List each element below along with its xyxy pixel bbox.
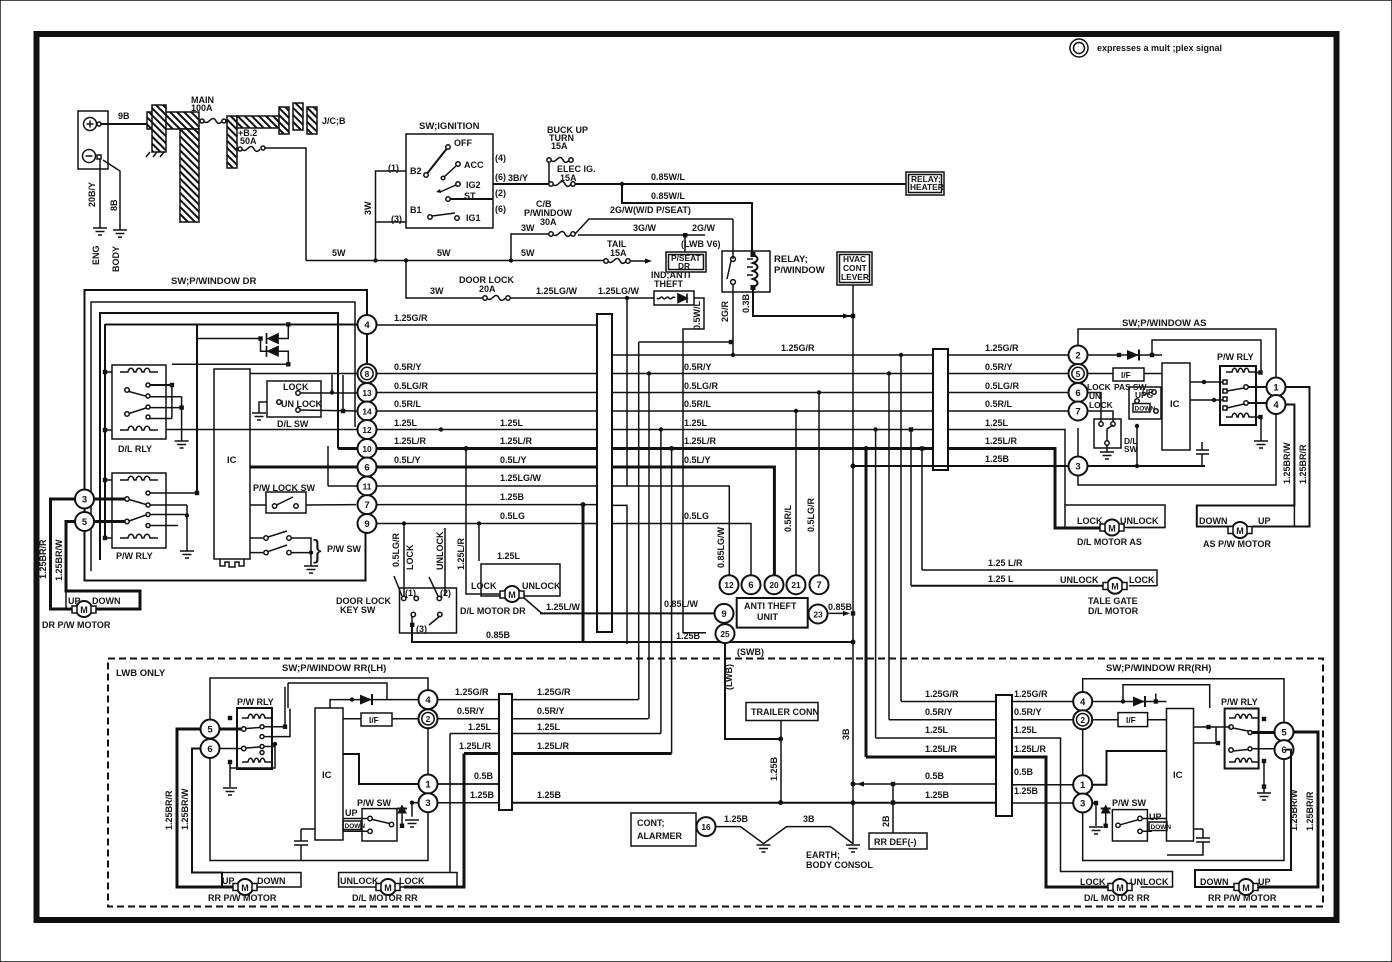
svg-text:1.25L/R: 1.25L/R (394, 436, 427, 446)
wire 1.25BR/R RR(RH) (1258, 732, 1318, 887)
svg-text:12: 12 (362, 425, 372, 435)
rows bus3 left side (437, 699, 499, 701)
IC RR(LH) (315, 708, 343, 840)
svg-text:21: 21 (791, 580, 801, 590)
svg-text:D/L MOTOR DR: D/L MOTOR DR (460, 606, 526, 616)
wire 0.5LG row (377, 523, 598, 525)
svg-text:0.5R/Y: 0.5R/Y (537, 706, 565, 716)
pin 7 (810, 575, 829, 594)
svg-text:UNIT: UNIT (757, 612, 778, 622)
bus bar B3 (499, 694, 512, 810)
svg-text:4: 4 (1080, 697, 1086, 708)
B1 / IG1 (428, 215, 432, 219)
D/L MOTOR AS (1065, 505, 1165, 528)
svg-text:2G/W(W/D P/SEAT): 2G/W(W/D P/SEAT) (610, 205, 691, 215)
svg-text:0.85B: 0.85B (486, 630, 511, 640)
svg-text:7: 7 (364, 500, 369, 511)
svg-text:UNLOCK: UNLOCK (1060, 575, 1099, 585)
svg-text:RR DEF(-): RR DEF(-) (874, 837, 917, 847)
pin 8 (358, 364, 377, 383)
CONT;ALARMER box (631, 813, 696, 846)
wire 0.5R/Y mid row (612, 373, 933, 375)
svg-text:14: 14 (362, 407, 372, 417)
svg-text:SW;P/WINDOW RR(LH): SW;P/WINDOW RR(LH) (282, 663, 386, 674)
svg-text:1.25G/R: 1.25G/R (394, 313, 428, 323)
svg-text:1.25L: 1.25L (497, 551, 521, 561)
svg-text:RELAY;: RELAY; (774, 254, 808, 265)
svg-text:LOCK: LOCK (1129, 575, 1155, 585)
pin 11 (358, 477, 377, 496)
wire 50A to 5W line (265, 148, 306, 261)
svg-text:0.85W/L: 0.85W/L (651, 191, 686, 201)
svg-text:KEY SW: KEY SW (340, 605, 376, 615)
svg-text:1.25L: 1.25L (925, 725, 949, 735)
wire pin1 to IC (343, 754, 419, 784)
svg-text:2: 2 (1080, 715, 1085, 725)
wire 3B earth long vertical (852, 316, 854, 844)
svg-text:0.5LG: 0.5LG (684, 511, 709, 521)
svg-text:LWB ONLY: LWB ONLY (116, 668, 166, 679)
svg-text:1.25L: 1.25L (684, 418, 708, 428)
diode pair D2 (261, 339, 270, 352)
svg-text:D/L MOTOR RR: D/L MOTOR RR (1084, 893, 1150, 903)
wire 0.85W/L lower (622, 184, 752, 252)
svg-text:ST: ST (464, 191, 476, 201)
svg-text:(2): (2) (495, 188, 506, 198)
P/W RLY DR (112, 473, 166, 548)
svg-text:1: 1 (425, 780, 431, 791)
svg-text:5W: 5W (521, 248, 535, 258)
svg-text:UP: UP (1258, 516, 1271, 526)
relay heater box (906, 172, 944, 195)
svg-text:0.5B: 0.5B (925, 771, 945, 781)
svg-text:8: 8 (365, 369, 370, 379)
svg-text:0.5R/Y: 0.5R/Y (985, 362, 1013, 372)
wire 1.25LG/W row (377, 485, 598, 487)
svg-text:9: 9 (364, 519, 369, 530)
bus bar B4 (996, 695, 1012, 816)
svg-text:D/L MOTOR RR: D/L MOTOR RR (352, 893, 418, 903)
svg-text:0.5LG/R: 0.5LG/R (391, 532, 401, 567)
svg-text:1.25BR/W: 1.25BR/W (180, 788, 190, 830)
svg-text:AS P/W MOTOR: AS P/W MOTOR (1203, 539, 1271, 549)
AS pins (1069, 346, 1088, 365)
wire 1.25BR/W RR(RH) (1195, 750, 1291, 887)
svg-text:25: 25 (720, 629, 730, 639)
pin 16 (697, 817, 716, 836)
fusible link block C (180, 129, 199, 222)
ground under D/L RLY (175, 441, 189, 448)
pin 2 (419, 709, 438, 728)
pin 9 (715, 604, 734, 623)
svg-text:0.5R/L: 0.5R/L (684, 399, 712, 409)
bus bar B2 (933, 349, 948, 470)
wire 0.5B pin1 (437, 783, 499, 785)
circle 5 pin (75, 512, 94, 531)
wire 3G/W (578, 234, 705, 236)
svg-text:LEVER: LEVER (841, 272, 869, 282)
svg-text:(3): (3) (416, 624, 427, 634)
ANTI THEFT UNIT box (737, 598, 808, 628)
svg-text:SW;P/WINDOW AS: SW;P/WINDOW AS (1122, 318, 1206, 329)
relay P/WINDOW box (722, 251, 770, 292)
svg-text:0.5L/Y: 0.5L/Y (394, 455, 421, 465)
wire to P/SEAT DR (684, 237, 686, 252)
svg-text:9: 9 (721, 609, 726, 620)
svg-text:LOCK: LOCK (1077, 516, 1103, 526)
svg-text:15A: 15A (610, 248, 627, 258)
svg-text:M: M (1108, 524, 1116, 534)
pin 7 (358, 495, 377, 514)
I/F RR(LH) (361, 713, 392, 726)
svg-text:P/W RLY: P/W RLY (237, 697, 274, 707)
wire 0.85B row (412, 627, 853, 642)
D/L RLY (112, 365, 166, 439)
svg-text:M: M (1236, 526, 1244, 536)
svg-text:D/L RLY: D/L RLY (118, 444, 152, 454)
svg-text:100A: 100A (191, 103, 213, 113)
fusible link block B (152, 105, 166, 152)
svg-text:5: 5 (1076, 369, 1081, 379)
diode RR(RH) (1092, 701, 1167, 703)
svg-text:0.5B: 0.5B (474, 771, 494, 781)
svg-text:(6): (6) (495, 172, 506, 182)
svg-text:P/W SW: P/W SW (357, 798, 392, 808)
svg-text:1.25LG/W: 1.25LG/W (500, 473, 542, 483)
svg-text:5: 5 (207, 725, 213, 736)
wire 3W to DOOR LOCK fuse (406, 261, 483, 299)
svg-text:6: 6 (1075, 388, 1080, 399)
wire 0.5LG/R to antitheft 7 (818, 393, 820, 577)
pin 9 (358, 514, 377, 533)
svg-text:DOWN: DOWN (92, 596, 121, 606)
svg-text:5: 5 (82, 517, 88, 528)
diode AS top (1088, 354, 1163, 356)
svg-text:5W: 5W (332, 248, 346, 258)
svg-text:9B: 9B (118, 111, 130, 121)
svg-text:DOWN: DOWN (1199, 516, 1228, 526)
svg-text:1.25L/R: 1.25L/R (684, 436, 717, 446)
svg-text:DOWN: DOWN (1135, 406, 1156, 413)
svg-text:3G/W: 3G/W (633, 223, 657, 233)
svg-text:M: M (1242, 883, 1250, 893)
wire 1.25BR/R to motor (177, 729, 237, 887)
wire pin1 to IC thick (1092, 751, 1167, 785)
D/L MOTOR DR box (481, 564, 560, 596)
svg-text:1.25B: 1.25B (724, 814, 749, 824)
relay coil (753, 255, 758, 287)
svg-text:20: 20 (769, 580, 779, 590)
ST (446, 197, 450, 201)
svg-text:30A: 30A (540, 217, 557, 227)
wire 1.25L row (377, 429, 598, 431)
svg-text:1.25 L: 1.25 L (988, 574, 1014, 584)
key sw arms (394, 576, 438, 596)
ground earth 2 (846, 845, 860, 852)
svg-text:1.25L: 1.25L (985, 418, 1009, 428)
svg-text:LOCK: LOCK (405, 544, 415, 570)
svg-text:SW;P/WINDOW DR: SW;P/WINDOW DR (171, 276, 256, 287)
pin 5 (1275, 723, 1294, 742)
circle 3 pin (75, 490, 94, 509)
TRAILER CONN box (746, 703, 818, 721)
pin 5 (1069, 364, 1088, 383)
svg-text:1.25B: 1.25B (985, 454, 1010, 464)
wire 0.5R/L to antitheft 21 (795, 411, 797, 576)
wire 1.25BR/R circle3 to motor (51, 499, 76, 609)
svg-text:6: 6 (364, 463, 369, 474)
svg-text:DOWN: DOWN (345, 823, 366, 830)
svg-text:23: 23 (813, 610, 823, 620)
relay coil terminals (1258, 370, 1262, 374)
svg-text:1.25B: 1.25B (470, 790, 495, 800)
capacitor AS (1196, 442, 1209, 466)
svg-text:1.25L/R: 1.25L/R (537, 741, 570, 751)
svg-text:1.25G/R: 1.25G/R (455, 687, 489, 697)
ACC (456, 162, 460, 166)
wires relay to pins 5,6 (1252, 731, 1275, 734)
svg-text:0.5LG: 0.5LG (500, 511, 525, 521)
svg-text:3B: 3B (841, 728, 851, 740)
svg-text:1.25L: 1.25L (537, 722, 561, 732)
wire 1.25L/R mid row (612, 447, 933, 450)
svg-text:3W: 3W (363, 201, 373, 215)
wire 2G/R from switch (732, 284, 734, 355)
ground under relay RR(LH) (229, 764, 231, 787)
svg-text:UN LOCK: UN LOCK (281, 399, 322, 409)
pins 1 and 4 (1248, 387, 1267, 403)
wire battery+ to fusible link (101, 123, 148, 125)
wire 1.25L/R down to D/L MOTOR DR (466, 449, 502, 595)
svg-text:OFF: OFF (454, 138, 472, 148)
HVAC CONT LEVER box (837, 252, 872, 285)
svg-text:11: 11 (363, 482, 372, 492)
pin 6 (742, 575, 761, 594)
pin 3 (1069, 457, 1088, 476)
svg-text:THEFT: THEFT (654, 279, 683, 289)
diode at pin3 RR(RH) (1092, 802, 1096, 804)
pin 13 (358, 383, 377, 402)
svg-text:UNLOCK: UNLOCK (340, 876, 379, 886)
wire 20B/Y to ENG ground (99, 159, 101, 228)
J/C;B hatch bars (279, 107, 289, 134)
wire 0.5R/Y row (377, 373, 598, 375)
wire 1.25B row (853, 465, 1205, 467)
svg-text:6: 6 (748, 580, 753, 591)
svg-text:50A: 50A (240, 136, 257, 146)
svg-text:D/L MOTOR: D/L MOTOR (1088, 606, 1139, 616)
svg-text:B1: B1 (410, 205, 422, 215)
svg-text:UNLOCK: UNLOCK (435, 531, 445, 570)
wire 0.5B long row (853, 783, 996, 785)
svg-text:1.25L/R: 1.25L/R (500, 436, 533, 446)
long verticals to RR(RH) (900, 355, 902, 701)
svg-text:1.25G/R: 1.25G/R (985, 343, 1019, 353)
wire 0.5LG/R row (377, 392, 598, 394)
wire 0.85LG/W to antitheft 12 (612, 486, 729, 576)
svg-text:1.25L: 1.25L (394, 418, 418, 428)
ground BODY (113, 230, 127, 237)
pin 1 (1073, 775, 1092, 794)
svg-text:0.5B: 0.5B (1014, 767, 1034, 777)
fusible link block D (227, 116, 237, 168)
svg-text:1.25B: 1.25B (537, 790, 562, 800)
svg-text:3B/Y: 3B/Y (508, 173, 528, 183)
svg-text:0.5LG/R: 0.5LG/R (394, 381, 429, 391)
wire x627 down (626, 298, 628, 486)
svg-text:IC: IC (1170, 399, 1180, 410)
rows bus3 right side (512, 699, 639, 701)
svg-text:I/F: I/F (1121, 370, 1131, 380)
pin 4 (1267, 395, 1286, 414)
svg-text:ENG: ENG (91, 245, 101, 265)
svg-text:P/W SW: P/W SW (1112, 798, 1147, 808)
svg-text:20B/Y: 20B/Y (87, 182, 97, 207)
bus bar B1 (597, 314, 612, 632)
svg-text:M: M (384, 883, 392, 893)
IC DR (214, 369, 250, 559)
svg-text:M: M (80, 605, 88, 615)
svg-text:(LWB V6): (LWB V6) (681, 239, 721, 249)
svg-text:5: 5 (1281, 728, 1287, 739)
svg-text:0.85B: 0.85B (828, 602, 853, 612)
svg-text:0.5LG/R: 0.5LG/R (806, 497, 816, 532)
wire IG2 3B/Y to fuses (493, 183, 549, 185)
D/L SW box (267, 381, 321, 417)
P/W SW DR contacts (264, 536, 268, 540)
svg-text:IC: IC (1173, 770, 1183, 781)
ground under relay RR(RH) (1263, 787, 1265, 793)
svg-text:IC: IC (322, 770, 332, 781)
svg-text:1: 1 (1273, 383, 1279, 394)
svg-text:1.25B: 1.25B (769, 756, 779, 781)
wire 2B (892, 784, 894, 833)
pin 6 (358, 458, 377, 477)
wire LWB from pin 25 (725, 643, 780, 739)
svg-text:1.25LG/W: 1.25LG/W (536, 286, 578, 296)
svg-text:IC: IC (227, 455, 237, 466)
pin 4 (358, 315, 377, 334)
svg-text:0.5L/Y: 0.5L/Y (500, 455, 527, 465)
wire 0.5L/Y mid row to antitheft 20 (612, 467, 774, 576)
svg-text:3: 3 (82, 495, 87, 506)
svg-text:1.25L/R: 1.25L/R (459, 741, 492, 751)
B2 contact and arm (424, 173, 428, 177)
wires IC to relay (1190, 382, 1223, 400)
pin 2 (1073, 710, 1092, 729)
svg-text:3: 3 (1075, 462, 1080, 473)
svg-text:J/C;B: J/C;B (322, 116, 346, 126)
wire 1.25G/R mid row (612, 354, 933, 356)
diode pair D1 (197, 338, 261, 340)
wire 1.25BR/W to motor (192, 749, 222, 888)
wire 1.25B drop (582, 505, 585, 642)
svg-text:I/F: I/F (1126, 715, 1136, 725)
svg-text:8B: 8B (109, 199, 119, 211)
wire y342 stub (639, 341, 729, 343)
svg-text:3B: 3B (803, 814, 815, 824)
LWB ONLY dashed box (108, 659, 1323, 907)
diode RR(LH) (330, 700, 419, 708)
pin 1 (419, 775, 438, 794)
pin 3 (419, 793, 438, 812)
AS P/W MOTOR wires (1253, 387, 1310, 527)
wire 5W main run (306, 260, 604, 262)
svg-text:(SWB): (SWB) (737, 647, 764, 657)
svg-text:UP: UP (345, 808, 358, 818)
svg-text:1.25BR/R: 1.25BR/R (38, 539, 48, 579)
svg-text:1.25 L/R: 1.25 L/R (988, 558, 1023, 568)
svg-text:DOWN: DOWN (257, 876, 286, 886)
svg-text:3: 3 (1080, 799, 1085, 810)
svg-text:0.85LG/W: 0.85LG/W (716, 526, 726, 568)
svg-text:2G/W: 2G/W (692, 223, 716, 233)
ground under AS relay (1260, 419, 1262, 441)
wire 1.25BR/W circle5 to motor (66, 522, 140, 610)
svg-text:P/WINDOW: P/WINDOW (774, 265, 825, 276)
svg-text:1.25L: 1.25L (1014, 725, 1038, 735)
wire 0.5R/L mid row (612, 410, 933, 412)
svg-text:5W: 5W (437, 248, 451, 258)
svg-text:SW: SW (1124, 444, 1138, 454)
D/L MOTOR RR LH (339, 873, 457, 888)
svg-text:HEATER: HEATER (910, 182, 944, 192)
capacitor RR(RH) (1167, 829, 1210, 855)
nested wire loop 4 (104, 324, 106, 538)
long verticals to RR(LH) (648, 374, 650, 719)
svg-text:0.5LG/R: 0.5LG/R (985, 381, 1020, 391)
svg-text:SW;IGNITION: SW;IGNITION (419, 121, 480, 132)
svg-text:0.5R/Y: 0.5R/Y (394, 362, 422, 372)
svg-text:B2: B2 (410, 166, 422, 176)
RR(RH) pins (1073, 692, 1092, 711)
svg-text:7: 7 (816, 580, 821, 591)
wire (1) B2 to 5W (376, 171, 407, 261)
svg-text:IG1: IG1 (466, 213, 481, 223)
fusible link block E (237, 116, 279, 128)
D/L SW AS box (1094, 419, 1121, 448)
wire 2G/W feed to relay switch (732, 219, 734, 259)
svg-text:DOWN: DOWN (1151, 824, 1172, 831)
svg-text:ACC: ACC (464, 160, 484, 170)
svg-text:0.5R/Y: 0.5R/Y (457, 706, 485, 716)
svg-text:0.85L/W: 0.85L/W (664, 599, 699, 609)
pin 6 (1069, 383, 1088, 402)
svg-text:TALE GATE: TALE GATE (1088, 596, 1138, 606)
svg-text:CONT;: CONT; (637, 818, 665, 828)
pin 14 (358, 402, 377, 421)
svg-text:P/W SW: P/W SW (327, 544, 362, 554)
RR DEF(-) box (869, 833, 927, 849)
wire 0.5LG mid row to antitheft 6 (612, 524, 751, 576)
svg-text:D/L SW: D/L SW (277, 419, 309, 429)
svg-text:M: M (1111, 582, 1119, 592)
svg-text:2G/R: 2G/R (720, 300, 730, 322)
pin circles column (366, 333, 368, 533)
svg-text:4: 4 (425, 695, 431, 706)
wire 0.5R/L row (377, 410, 598, 412)
wire 8B to BODY ground (103, 160, 120, 230)
pin 1 (1267, 378, 1286, 397)
pin 6 (1275, 740, 1294, 759)
pin 21 (787, 575, 806, 594)
svg-text:1.25B: 1.25B (1014, 786, 1039, 796)
svg-text:1.25BR/R: 1.25BR/R (1298, 444, 1308, 484)
pin 12 (358, 420, 377, 439)
wire 1.25L/W from motor (524, 598, 542, 613)
earth wires (716, 827, 764, 844)
svg-text:0.5R/Y: 0.5R/Y (684, 362, 712, 372)
